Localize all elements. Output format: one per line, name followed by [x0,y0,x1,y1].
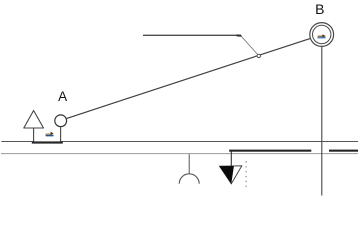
ground line upper [1,141,358,143]
hanger stem to dome [188,154,190,174]
carriage base bar [32,141,63,143]
svg-text:A: A [58,89,67,104]
slider arrow icon in pulley B [318,34,326,38]
rod from A to pulley B [67,38,311,118]
left thick rail bar [229,150,311,152]
support triangle [24,111,44,129]
stem from rail to pointer [230,152,232,170]
dome semicircle [179,174,199,184]
ceiling beam line [143,34,241,36]
dotted level line [245,162,247,187]
beam end junction blob [237,34,242,36]
pointer triangle half fill [220,166,234,184]
pin circle A [55,115,67,127]
pin A stem [60,127,62,142]
pulley B outer circle [310,23,334,47]
pointer triangle outline [220,166,242,184]
ground line lower [1,153,358,155]
pulley B inner circle [313,25,331,43]
node on rod [257,54,260,57]
triangle stem [33,128,35,142]
rope below pulley [321,46,323,195]
white gap in ground line under carriage [34,141,60,142]
strut from beam end to rod node [241,36,259,56]
svg-text:B: B [315,1,324,17]
slider arrow icon near A [46,132,54,137]
right thick rail bar [329,150,358,152]
